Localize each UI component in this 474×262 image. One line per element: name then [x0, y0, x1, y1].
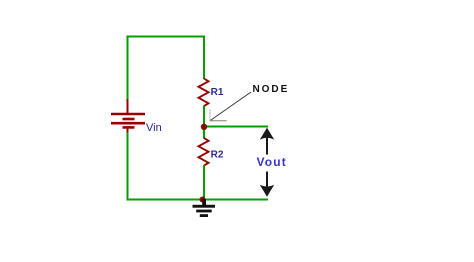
wire right vertical upper — [203, 36, 205, 80]
svg-text:NODE: NODE — [253, 84, 290, 95]
node arrow shaft — [210, 92, 251, 121]
wire node horizontal — [204, 126, 268, 128]
battery V1 plate long top — [111, 113, 145, 116]
resistor R2 — [199, 138, 209, 166]
battery V1 bottom lead — [127, 127, 129, 133]
junction dot at ground — [200, 197, 206, 203]
node arrow barb vertical — [209, 109, 211, 121]
wire between node and R2 — [203, 127, 205, 139]
wire left vertical upper — [127, 36, 129, 100]
Vout arrow head bottom — [260, 185, 274, 197]
svg-text:Vout: Vout — [257, 155, 287, 169]
resistor R1 — [199, 79, 209, 107]
wire top horizontal — [127, 36, 206, 38]
ground bar 2 — [196, 210, 212, 213]
battery V1 plate short — [123, 118, 135, 121]
battery V1 top lead — [127, 99, 129, 114]
wire between R1 and node — [203, 106, 205, 129]
battery V1 plate short bottom — [123, 126, 135, 129]
wire left vertical lower — [127, 133, 129, 201]
Vout arrow shaft upper — [266, 136, 268, 155]
battery V1 plate long — [111, 122, 145, 125]
node arrow barb horizontal — [210, 120, 227, 122]
Vout arrow head top — [260, 128, 274, 140]
ground bar 3 — [200, 214, 208, 217]
wire between R2 and ground — [203, 165, 205, 200]
node A junction dot — [201, 124, 207, 130]
Vout arrow shaft lower — [266, 172, 268, 190]
svg-text:R2: R2 — [211, 150, 224, 161]
svg-text:Vin: Vin — [146, 122, 162, 134]
ground stub — [202, 199, 206, 205]
wire bottom horizontal — [127, 199, 269, 201]
ground bar 1 — [193, 205, 216, 208]
svg-text:R1: R1 — [211, 87, 224, 98]
